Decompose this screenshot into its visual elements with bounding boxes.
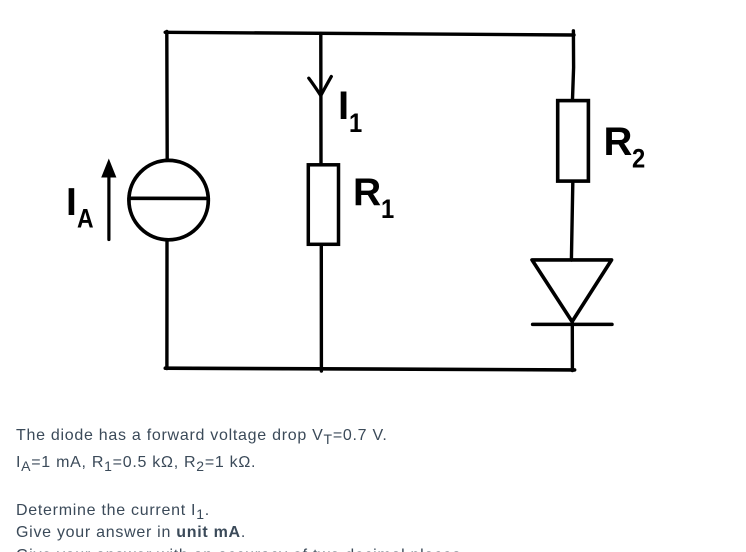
problem text line 1 xyxy=(16,427,388,445)
label R1 xyxy=(353,173,396,212)
problem text line 4 xyxy=(16,524,246,542)
IA direction arrow shaft xyxy=(107,174,110,240)
label I1 xyxy=(338,86,364,126)
IA direction arrow head xyxy=(101,159,116,178)
diode D1 triangle xyxy=(532,260,612,322)
wire middle branch lower xyxy=(320,246,324,371)
wire middle branch upper xyxy=(319,34,323,164)
problem text line 3 xyxy=(16,502,210,520)
current source bar xyxy=(129,197,208,201)
label IA xyxy=(66,183,96,222)
problem text line 5 (cut off) xyxy=(16,547,466,552)
wire bottom bus xyxy=(165,368,574,370)
wire right branch upper xyxy=(573,31,574,99)
problem text line 2 xyxy=(16,454,256,472)
I1 current arrow head xyxy=(309,77,332,96)
wire left branch upper xyxy=(165,32,169,161)
label R2 xyxy=(604,122,648,162)
current source IA circle xyxy=(129,160,208,239)
wire diode to bottom bus xyxy=(571,321,575,371)
wire top bus xyxy=(165,32,574,35)
resistor R1 body xyxy=(308,165,338,245)
wire left branch lower xyxy=(165,240,169,368)
resistor R2 body xyxy=(558,101,589,182)
diode D1 cathode bar xyxy=(533,323,612,327)
wire R2 to diode xyxy=(571,183,572,260)
